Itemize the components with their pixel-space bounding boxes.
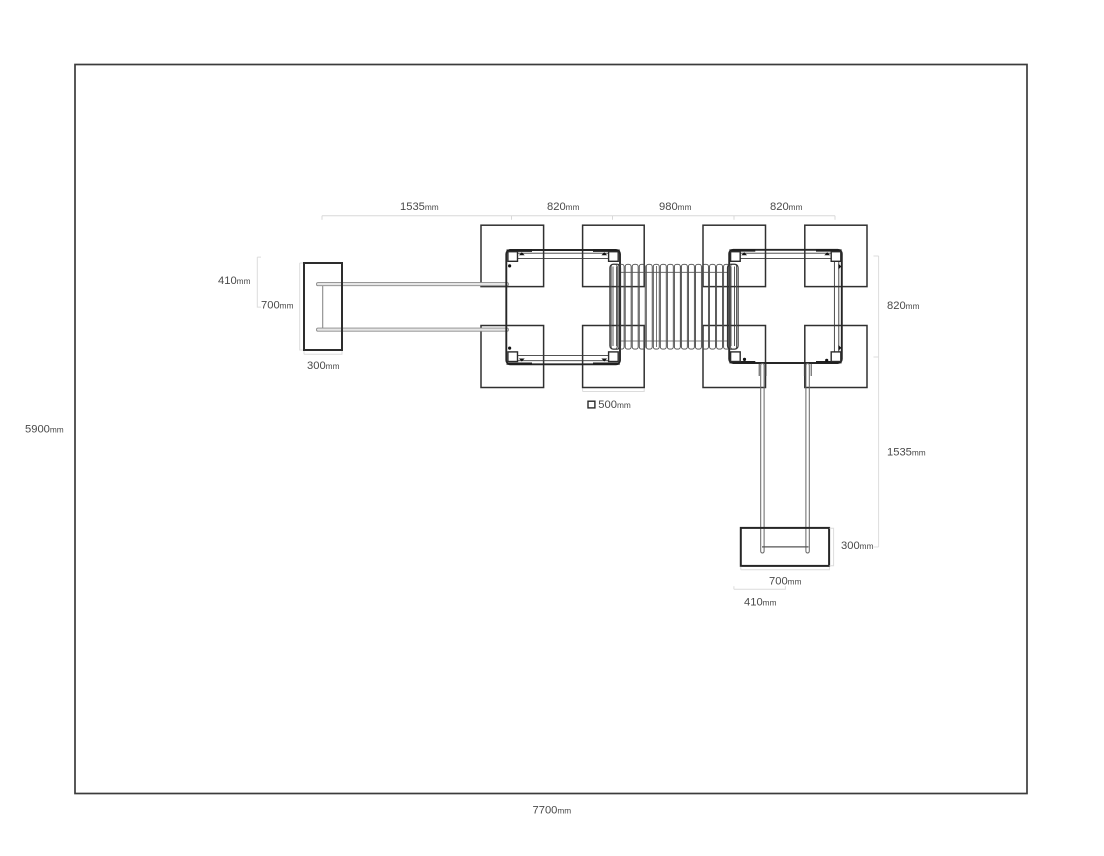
dimension line 300mm left bbox=[304, 351, 342, 354]
arrow marks right deck bbox=[741, 252, 841, 362]
post left-deck top-left bbox=[508, 252, 518, 262]
square glyph 500mm bbox=[588, 401, 595, 408]
bolt dots left deck bbox=[508, 264, 511, 267]
svg-text:410mm: 410mm bbox=[218, 275, 251, 287]
footing square right-platform bottom-left bbox=[703, 326, 766, 388]
dimension bracket 410mm left bbox=[257, 257, 261, 307]
post right-deck bottom-left bbox=[731, 352, 741, 362]
svg-text:1535mm: 1535mm bbox=[887, 446, 926, 458]
deck right thick edge segments bbox=[729, 251, 841, 363]
footing square left-platform top-left bbox=[481, 225, 544, 286]
post right-deck top-right bbox=[831, 252, 841, 262]
dimension line 700mm bottom bbox=[741, 567, 830, 570]
deck right top rail bbox=[740, 253, 831, 258]
deck left top rail bbox=[518, 253, 609, 258]
deck right side rail bbox=[834, 261, 838, 352]
svg-text:820mm: 820mm bbox=[547, 201, 580, 213]
footing square left-platform bottom-right bbox=[583, 326, 645, 388]
svg-text:820mm: 820mm bbox=[770, 201, 803, 213]
dimension line 410mm bottom bbox=[734, 586, 786, 589]
arrow marks left deck bbox=[508, 252, 607, 361]
bridge end cap left bbox=[610, 264, 621, 349]
slide rail upper left bbox=[317, 283, 509, 286]
bridge inner lines bbox=[621, 266, 728, 347]
slide exit box bottom bbox=[741, 528, 829, 566]
drawing border frame bbox=[75, 65, 1027, 794]
top dimension line bbox=[322, 216, 835, 220]
svg-text:700mm: 700mm bbox=[261, 300, 294, 312]
svg-text:500mm: 500mm bbox=[598, 399, 631, 411]
post right-deck top-left bbox=[731, 252, 741, 262]
bridge end cap right bbox=[728, 264, 739, 349]
svg-text:410mm: 410mm bbox=[744, 596, 777, 608]
post left-deck top-right bbox=[609, 252, 619, 262]
slide rail attachments bbox=[759, 364, 811, 376]
svg-text:1535mm: 1535mm bbox=[400, 201, 439, 213]
deck left bottom rail bbox=[518, 355, 609, 360]
dimension bracket 300mm exit box bbox=[830, 528, 834, 566]
post right-deck bottom-right bbox=[831, 352, 841, 362]
svg-text:5900mm: 5900mm bbox=[25, 423, 64, 435]
slide rail right vertical bbox=[806, 364, 809, 554]
svg-text:980mm: 980mm bbox=[659, 201, 692, 213]
footing square left-platform bottom-left bbox=[481, 326, 544, 388]
slide exit box left bbox=[304, 263, 342, 350]
bolt dots right deck bbox=[743, 358, 746, 361]
svg-text:300mm: 300mm bbox=[841, 540, 874, 552]
deck left thick edge segments bbox=[507, 251, 620, 364]
rail connector left bbox=[322, 286, 324, 328]
footing square right-platform bottom-right bbox=[805, 326, 867, 388]
dimension line 500mm footing bbox=[583, 389, 645, 392]
svg-text:700mm: 700mm bbox=[769, 576, 802, 588]
clatter bridge slats bbox=[611, 264, 736, 349]
footing square left-platform top-right bbox=[583, 225, 645, 286]
post left-deck bottom-right bbox=[609, 352, 619, 362]
footing square right-platform top-right bbox=[805, 225, 867, 286]
dimension bracket 700mm left bbox=[300, 263, 304, 350]
slide rail lower left bbox=[317, 328, 509, 331]
svg-text:7700mm: 7700mm bbox=[533, 805, 572, 817]
deck left platform bbox=[506, 250, 620, 364]
dimension line right 820/1535 bbox=[874, 256, 879, 547]
post left-deck bottom-left bbox=[508, 352, 518, 362]
slide rail left vertical bbox=[761, 364, 764, 554]
svg-text:820mm: 820mm bbox=[887, 300, 920, 312]
deck right platform bbox=[729, 250, 842, 363]
svg-text:300mm: 300mm bbox=[307, 360, 340, 372]
footing square right-platform top-left bbox=[703, 225, 766, 286]
slide crossbar bbox=[762, 546, 809, 548]
